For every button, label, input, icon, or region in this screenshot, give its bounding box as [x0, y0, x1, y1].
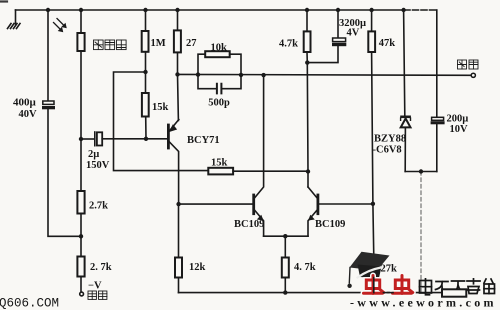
watermark bug chars (red): [364, 276, 413, 294]
label 47k: [379, 38, 396, 49]
svg-text:BC109: BC109: [234, 219, 264, 230]
capacitor 200u 10V: [431, 10, 445, 172]
capacitor 400u 40V: [42, 101, 55, 109]
resistor 12k: [175, 204, 182, 293]
label detector (caimeqi): [94, 40, 127, 50]
svg-text:4V: 4V: [347, 28, 360, 39]
label -V: [88, 281, 102, 292]
node zener/cap junction: [419, 169, 423, 173]
wire top supply rail: [16, 9, 437, 11]
svg-text:4.7k: 4.7k: [279, 39, 298, 50]
node base junction: [144, 137, 148, 141]
svg-text:4. 7k: 4. 7k: [294, 262, 316, 273]
svg-text:BZY88: BZY88: [374, 134, 406, 145]
label 27: [186, 38, 197, 49]
terminal output: [471, 73, 475, 77]
capacitor 3200u 4V: [307, 10, 346, 63]
label 15k vertical: [152, 102, 169, 113]
node RC right: [239, 73, 243, 77]
wire bottom rail: [179, 292, 467, 294]
diode zener BZY88-C6V8: [400, 10, 411, 172]
label 2.7k lower: [90, 262, 112, 273]
svg-text:400µ: 400µ: [13, 97, 37, 109]
svg-text:10k: 10k: [211, 42, 228, 53]
node collector-left/output junction: [261, 73, 265, 77]
svg-text:10V: 10V: [450, 124, 469, 135]
label 10k: [211, 42, 228, 53]
svg-text:BCY71: BCY71: [187, 135, 220, 146]
wire output line: [178, 73, 472, 76]
wire dashed return to bottom rail: [420, 172, 422, 293]
resistor 15k vertical: [142, 72, 149, 139]
resistor 10k feedback: [198, 51, 241, 75]
label 4.7k tail: [294, 262, 316, 273]
resistor 1M: [142, 10, 149, 72]
label 3200u 4V: [339, 18, 366, 39]
label 400u 40V: [13, 97, 37, 121]
transistor Q3 BC109 right: [308, 187, 373, 236]
svg-text:-C6V8: -C6V8: [373, 145, 402, 156]
transistor Q2 BC109 left: [254, 76, 264, 237]
svg-text:40V: 40V: [19, 109, 38, 120]
svg-text:−V: −V: [88, 281, 102, 292]
resistor unlabeled on rail: [442, 289, 466, 296]
label 2.7k: [89, 201, 108, 212]
label 27k: [381, 264, 398, 275]
terminal -V bias: [80, 292, 84, 296]
node tail/rail junction: [283, 290, 287, 294]
svg-text:27: 27: [186, 38, 197, 49]
node tail junction: [283, 234, 287, 238]
wire to BC109 left base: [179, 203, 253, 205]
svg-text:BC109: BC109: [315, 219, 345, 230]
resistor 4.7k top: [304, 10, 311, 63]
watermark Q606.COM: [0, 297, 59, 310]
wire feedback from divider down-left: [114, 72, 209, 171]
label BC109 right: [315, 219, 345, 230]
label bias current (pianliu): [88, 291, 107, 299]
transistor Q1 BCY71: [168, 74, 178, 204]
svg-text:12k: 12k: [189, 262, 206, 273]
watermark mortarboard icon: [347, 252, 389, 288]
resistor 47k: [368, 10, 375, 204]
label 200u 10V: [447, 114, 469, 135]
label 12k: [189, 262, 206, 273]
wire zener/cap bottom join: [405, 171, 437, 173]
label output (shuchu): [458, 60, 479, 69]
svg-text:150V: 150V: [86, 160, 110, 171]
wire 15k to right collector branch: [233, 170, 308, 172]
node 1M/15k junction: [143, 70, 147, 74]
node 15k / collector-right junction: [306, 169, 310, 173]
watermark site name chars: [420, 279, 495, 295]
svg-text:-www.eeworm.com: -www.eeworm.com: [350, 296, 497, 310]
node divider / base-right junction: [371, 202, 375, 206]
label 1M: [151, 38, 166, 49]
capacitor 500p: [198, 75, 241, 94]
node top rail junctions: [46, 8, 406, 12]
capacitor 2u 150V: [81, 132, 168, 146]
node BCY71 collector / base-left junction: [176, 202, 180, 206]
watermark url: [350, 296, 497, 310]
label BCY71: [187, 135, 220, 146]
wire emitter rail: [264, 235, 308, 237]
resistor 27k: [370, 204, 377, 293]
resistor LDR detector: [77, 10, 84, 139]
wire 27k lead over watermark: [373, 278, 375, 293]
wire down to right collector: [306, 63, 309, 187]
svg-text:1M: 1M: [151, 38, 166, 49]
svg-text:2. 7k: 2. 7k: [90, 262, 112, 273]
ground: [8, 10, 21, 29]
wire 400u branch upper: [47, 10, 49, 101]
label 2u 150V: [86, 149, 110, 171]
svg-text:Q606.COM: Q606.COM: [0, 297, 59, 310]
node 4.7k/3200u junction: [305, 60, 309, 64]
svg-text:15k: 15k: [152, 102, 169, 113]
resistor 2.7k lower: [77, 236, 84, 292]
svg-text:27k: 27k: [381, 264, 398, 275]
label 4.7k top: [279, 39, 298, 50]
svg-text:15k: 15k: [211, 158, 228, 169]
label 500p: [208, 98, 230, 109]
label 15k horizontal: [211, 158, 228, 169]
svg-text:2.7k: 2.7k: [89, 201, 108, 212]
svg-text:47k: 47k: [379, 38, 396, 49]
light arrows onto LDR: [54, 19, 67, 32]
resistor 4.7k tail: [282, 236, 289, 292]
resistor 27: [174, 10, 181, 74]
svg-text:2µ: 2µ: [88, 149, 99, 160]
resistor 2.7k upper: [77, 139, 84, 236]
wire 400u branch lower to bias node: [48, 109, 81, 236]
stray scan mark: [0, 0, 7, 2]
node LDR / 2u / 2.7k junction: [79, 137, 83, 141]
node emitter/output junction: [175, 72, 179, 76]
node RC left: [196, 72, 200, 76]
resistor 15k horizontal: [208, 168, 233, 175]
label BC109 left: [234, 219, 264, 230]
svg-text:500p: 500p: [208, 98, 230, 109]
node bias junction: [79, 234, 83, 238]
label BZY88-C6V8: [373, 134, 407, 156]
